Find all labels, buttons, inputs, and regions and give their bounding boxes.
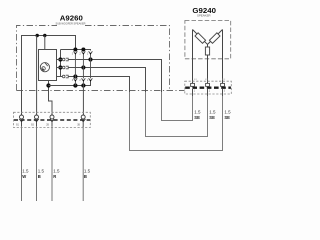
terminal pin numbers <box>72 52 89 82</box>
harness code labels <box>194 79 226 81</box>
node dot row A <box>88 57 92 61</box>
svg-text:3: 3 <box>72 79 74 82</box>
svg-text:3: 3 <box>224 90 226 93</box>
speaker symbol <box>40 63 49 72</box>
svg-text:W: W <box>22 174 26 179</box>
voice coil left arm <box>193 30 208 48</box>
grid vertical X2 with terminals <box>82 51 86 85</box>
svg-text:B1: B1 <box>16 124 20 127</box>
wire pin4 down <box>82 122 84 127</box>
grid vertical X3 with terminals <box>89 51 93 85</box>
right pin 1 <box>191 83 195 86</box>
svg-text:SE: SE <box>224 115 230 120</box>
node dot <box>58 65 62 69</box>
voice coil right <box>209 33 220 43</box>
node dot <box>81 48 85 52</box>
center coil wire down <box>207 55 209 84</box>
connector pin 4 <box>81 115 85 122</box>
wire box top stub <box>44 36 46 50</box>
center coil <box>205 47 209 55</box>
svg-text:B3: B3 <box>31 124 35 127</box>
node dot at 37,35.8 <box>36 34 39 37</box>
node dot <box>81 83 85 87</box>
right pin 2 <box>206 83 210 86</box>
wire W2 <box>36 36 38 116</box>
svg-text:1: 1 <box>194 90 196 93</box>
svg-text:2: 2 <box>79 52 81 55</box>
svg-text:2: 2 <box>79 79 81 82</box>
svg-text:SE: SE <box>209 115 215 120</box>
node dot at 46.5,35.8 <box>43 34 46 37</box>
node dot <box>73 83 77 87</box>
node dot <box>73 48 77 52</box>
internal bus vertical <box>60 50 62 77</box>
voice coil left <box>195 33 206 43</box>
svg-text:3B: 3B <box>77 124 80 127</box>
right connector dashed box <box>185 81 232 94</box>
G9240 wire left <box>192 30 194 84</box>
speaker box A9260 <box>39 50 57 81</box>
wire gauge labels right <box>194 110 231 115</box>
wire pin1 down <box>21 122 23 127</box>
row B wire with terminal <box>57 66 208 136</box>
right pin numbers <box>194 90 226 93</box>
svg-text:1: 1 <box>87 52 89 55</box>
node dot <box>46 83 50 87</box>
node dot row B <box>81 65 85 69</box>
left connector J/B dashed box <box>14 112 91 127</box>
right connector thick dashed band <box>185 86 231 88</box>
svg-text:R: R <box>53 174 56 179</box>
left connector thick dashed band <box>14 119 90 121</box>
connector pin 2 <box>34 115 38 122</box>
wire W4 <box>82 86 84 116</box>
svg-text:B: B <box>84 174 87 179</box>
svg-text:2B: 2B <box>46 124 49 127</box>
node dot row C <box>73 74 77 78</box>
A9260 component dashed boundary <box>17 26 170 91</box>
connector pin 3 <box>50 115 54 122</box>
G9240 dashed box <box>185 21 231 59</box>
wire pin3 down <box>51 122 53 127</box>
wire top horizontal <box>22 36 76 116</box>
G9240 wire right <box>222 30 224 84</box>
wire pin2 down <box>36 122 38 127</box>
svg-text:2: 2 <box>209 90 211 93</box>
connector pin 1 <box>19 115 23 122</box>
row C wire with terminal <box>57 75 223 150</box>
node dot <box>58 57 62 61</box>
svg-text:SUB WOOFER SPEAKER: SUB WOOFER SPEAKER <box>56 22 86 26</box>
svg-text:SE: SE <box>194 115 200 120</box>
svg-text:B: B <box>38 174 41 179</box>
shield chain line <box>17 90 185 92</box>
wire bottom bus <box>49 82 91 86</box>
svg-text:SPEAKER: SPEAKER <box>197 14 211 18</box>
right connector wires down <box>192 89 194 96</box>
wire gauge labels left <box>22 169 90 174</box>
voice coil right arm <box>208 30 223 45</box>
svg-text:3: 3 <box>72 52 74 55</box>
wire from box bottom to connector pin3 <box>49 81 53 116</box>
row A wire with terminal <box>57 58 193 120</box>
svg-text:1: 1 <box>87 79 89 82</box>
pin number labels <box>16 124 80 127</box>
right pin 3 <box>221 83 225 86</box>
grid top wire <box>61 50 91 51</box>
grid vertical X1 with terminals <box>74 51 78 85</box>
